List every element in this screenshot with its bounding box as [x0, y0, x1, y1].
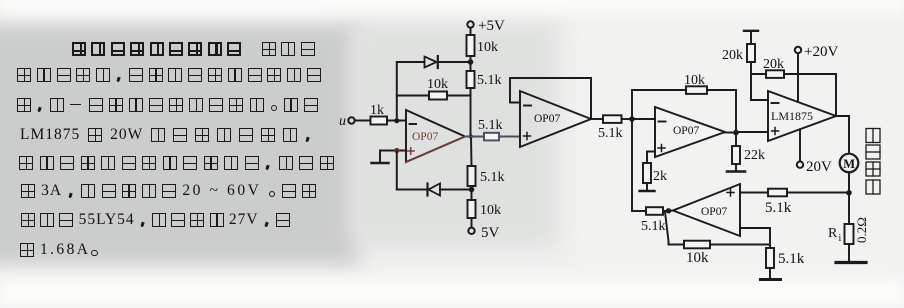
wire node F to R14 — [787, 192, 849, 194]
svg-text:LM1875: LM1875 — [771, 109, 813, 123]
wire to diode D1 — [397, 61, 425, 63]
paragraph line 4 — [20, 127, 312, 144]
wire - node down to R18 — [769, 245, 771, 249]
resistor R9 10k feedback — [686, 86, 707, 94]
svg-text:10k: 10k — [684, 73, 705, 88]
resistor R5 5.1k lower — [468, 166, 476, 186]
resistor R7 5.1k coupling — [484, 133, 499, 141]
U1 plus sign — [408, 148, 415, 155]
wire R12 down to - input — [751, 62, 768, 100]
U3 plus sign — [658, 145, 665, 152]
op-amp U5 LM1875 — [768, 91, 836, 141]
resistor R15 Ri 0.2ohm — [845, 224, 854, 244]
ground at R10 — [646, 183, 648, 190]
wire ground to + input — [380, 150, 406, 152]
wire R9 to output node D — [707, 90, 736, 133]
wire D1 to node B — [438, 61, 471, 63]
wire U5 output to motor — [836, 116, 849, 154]
svg-text:2k: 2k — [653, 169, 667, 184]
svg-text:0.2Ω: 0.2Ω — [854, 217, 869, 243]
wire R5 to node D2 — [471, 186, 473, 200]
svg-text:OP07: OP07 — [673, 125, 699, 137]
wire node C down rail — [631, 119, 633, 211]
resistor R14 5.1k — [768, 189, 787, 197]
node B junction dot — [468, 59, 474, 65]
wire U1 output — [465, 136, 484, 138]
resistor R12 20k vertical — [747, 44, 755, 62]
input terminal u — [348, 117, 354, 123]
svg-text:10k: 10k — [686, 250, 709, 266]
U2 plus sign — [524, 133, 531, 140]
wire U3 + input stub — [647, 152, 655, 164]
svg-text:5.1k: 5.1k — [598, 126, 623, 141]
paragraph line 6 — [21, 183, 316, 200]
svg-text:+5V: +5V — [478, 18, 505, 34]
svg-text:5.1k: 5.1k — [480, 170, 505, 185]
resistor R18 5.1k to ground — [766, 248, 774, 268]
wire node C to U3 - input — [632, 118, 655, 120]
svg-text:1k: 1k — [370, 103, 384, 118]
node C junction dot — [629, 116, 635, 122]
wire R6 to -5V terminal — [471, 218, 473, 228]
resistor R17 10k feedback — [684, 241, 710, 249]
terminal +20V — [795, 47, 801, 53]
svg-text:OP07: OP07 — [412, 131, 438, 143]
glyph ji — [866, 180, 880, 194]
wire R16 to node C rail — [632, 210, 646, 212]
wire rail down to output level — [470, 88, 472, 137]
paragraph line 3 — [17, 97, 318, 114]
wire motor to node F — [848, 172, 850, 224]
junction dot on + wire — [394, 148, 399, 153]
wire 10k feedback branch — [397, 95, 429, 97]
svg-text:M: M — [843, 157, 855, 171]
svg-text:5V: 5V — [481, 225, 500, 241]
op-amp U2 OP07 — [520, 91, 591, 147]
paragraph line 8 — [20, 242, 98, 259]
motor label glyphs (vertical CJK) — [866, 129, 880, 195]
terminal -20V — [797, 162, 803, 168]
wire U4 output — [663, 210, 673, 213]
node A junction dot — [394, 118, 399, 123]
wire U4 feedback down — [665, 212, 684, 245]
ground at R18 — [769, 268, 771, 278]
paragraph line 2 — [17, 67, 321, 84]
resistor R2 10k feedback — [429, 92, 447, 100]
wire R17 to - node — [710, 228, 770, 245]
svg-text:20k: 20k — [722, 48, 743, 63]
svg-text:5.1k: 5.1k — [478, 118, 503, 133]
resistor R10 2k — [643, 163, 651, 183]
wire node C up to R9 — [632, 90, 686, 119]
U2 minus sign — [524, 105, 531, 107]
junction dot at output crossing — [469, 134, 473, 138]
U2 feedback wire — [510, 78, 591, 119]
svg-text:22k: 22k — [744, 148, 765, 163]
U3 minus sign — [659, 121, 666, 123]
resistor R3 10k — [467, 35, 475, 56]
wire R13 to output — [784, 74, 836, 116]
glyph ju — [866, 145, 880, 159]
diode D2 — [426, 184, 428, 196]
node D junction dot — [733, 130, 739, 136]
wire input to R1 — [355, 120, 370, 122]
svg-text:20V: 20V — [806, 159, 832, 175]
svg-text:+20V: +20V — [804, 44, 838, 60]
svg-text:5.1k: 5.1k — [765, 200, 792, 216]
svg-text:20k: 20k — [763, 57, 784, 72]
U5 plus sign — [772, 128, 779, 135]
U5 minus sign — [772, 102, 779, 104]
svg-text:10k: 10k — [427, 77, 448, 92]
op-amp U3 OP07 — [655, 107, 725, 157]
wire U2 output — [591, 118, 603, 120]
U4 plus sign — [727, 189, 734, 196]
wire D2 to lower node — [440, 189, 472, 191]
paragraph line 1 (bold title + start of text) — [72, 41, 315, 58]
wire R2 to rail — [447, 95, 471, 97]
resistor R4 5.1k — [467, 71, 475, 88]
ground at R15 — [848, 244, 850, 261]
wire R14 to U4 + input — [740, 192, 768, 194]
svg-text:R: R — [828, 226, 838, 241]
wire U5 bottom to -20V — [799, 129, 801, 161]
node F junction dot — [846, 190, 852, 196]
junction dot U4 output — [666, 208, 671, 213]
op-amp U4 OP07 mirrored — [673, 184, 740, 236]
paragraph line 5 — [19, 155, 334, 172]
op-amp U1 OP07 — [406, 110, 465, 162]
resistor R6 10k lower — [468, 200, 476, 218]
wire R7 to U2 + — [499, 136, 520, 138]
diode D1 — [425, 57, 437, 68]
svg-text:OP07: OP07 — [701, 206, 727, 218]
resistor R11 22k — [732, 146, 740, 164]
resistor R13 20k feedback — [766, 70, 784, 78]
svg-text:u: u — [339, 114, 346, 129]
svg-text:5.1k: 5.1k — [477, 73, 502, 88]
U1 minus sign — [410, 123, 417, 125]
glyph dian — [866, 162, 880, 176]
svg-text:10k: 10k — [480, 203, 501, 218]
wire U3 output to node D — [725, 132, 736, 134]
wire +20V to U5 top — [797, 53, 799, 102]
wire + node down to D2 — [396, 151, 398, 190]
ground at R11 — [735, 164, 737, 171]
svg-text:5.1k: 5.1k — [641, 219, 666, 234]
node dot lower — [469, 187, 475, 193]
terminal +5V — [467, 21, 473, 27]
svg-text:OP07: OP07 — [534, 113, 560, 125]
wire R1 to node A — [387, 120, 406, 122]
wire node D to U5 + input — [736, 131, 768, 133]
resistor R16 5.1k — [646, 207, 663, 215]
wire node D down to R11 — [735, 133, 737, 147]
wire +5V to R3 — [470, 28, 472, 35]
glyph li — [866, 129, 880, 143]
svg-text:10k: 10k — [477, 40, 498, 55]
paragraph line 7 — [21, 212, 290, 229]
inverted ground above R12 — [744, 30, 758, 32]
ground at U1 + input — [379, 151, 381, 163]
svg-text:i: i — [839, 233, 842, 244]
wire to diode D2 — [397, 189, 427, 191]
motor M1 — [840, 154, 859, 173]
svg-text:5.1k: 5.1k — [778, 251, 805, 267]
wire junction E to R13 — [751, 73, 766, 75]
terminal -5V — [468, 228, 474, 234]
wire node A up — [396, 62, 398, 121]
wire R8 to node C — [622, 118, 633, 120]
resistor R 1k — [371, 117, 388, 125]
resistor R8 5.1k — [603, 115, 622, 123]
wire rail output to lower 5.1k — [470, 137, 473, 167]
wire R3 to node B — [470, 56, 472, 71]
